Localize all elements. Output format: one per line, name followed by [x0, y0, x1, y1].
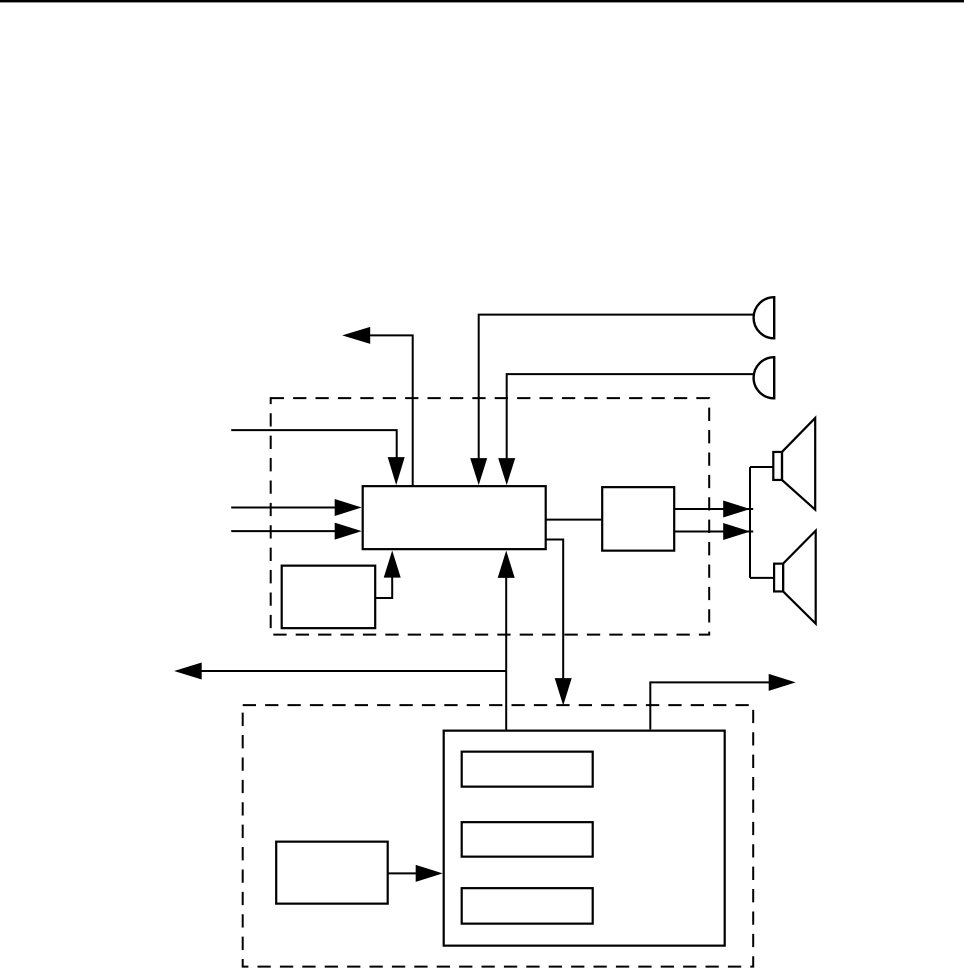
page top rule: [0, 0, 964, 2]
block: oscillator (small box upper-left): [282, 566, 376, 629]
wire: input line 2 into DSP left: [231, 506, 337, 508]
microphone MIC1: [754, 297, 775, 338]
block: interface (small lower-left box): [276, 842, 388, 904]
wire: speaker bracket vertical: [749, 467, 751, 578]
wire: oscillator to DSP: [375, 577, 392, 598]
microphone MIC2: [754, 357, 775, 398]
wire: DSP bypass down to control section: [546, 539, 564, 678]
wire: amplifier output 2 to speakers: [674, 531, 753, 533]
arrow: DSP output to upper-left: [369, 335, 413, 486]
arrow: controller output to right: [650, 682, 769, 729]
block: memory register 3: [462, 888, 593, 924]
arrow: output to far left: [201, 670, 507, 672]
speaker SPK2 cone: [783, 531, 816, 624]
wire: speaker bracket to SPK1: [750, 466, 773, 468]
wire: input line 1 into DSP top: [231, 430, 397, 458]
wire: interface to controller: [388, 872, 417, 874]
wire: amplifier output 1 to speakers: [674, 508, 753, 510]
speaker SPK1 driver: [773, 452, 782, 480]
block: controller (large lower box): [444, 731, 725, 946]
wire: speaker bracket to SPK2: [750, 577, 774, 579]
wire: controller to DSP (vertical riser): [505, 578, 507, 732]
wire: MIC2 to DSP: [507, 374, 754, 459]
dashed enclosure: audio processing section: [271, 398, 710, 635]
speaker SPK1 cone: [782, 418, 815, 510]
block: amplifier: [602, 487, 674, 551]
block: memory register 2: [462, 822, 593, 857]
speaker SPK2 driver: [774, 564, 783, 592]
block: memory register 1: [462, 752, 593, 787]
wire: MIC1 to DSP: [479, 315, 754, 460]
block: DSP (central box): [363, 486, 546, 549]
wire: DSP to amplifier: [546, 519, 603, 521]
wire: input line 3 into DSP left: [231, 530, 337, 532]
dashed enclosure: control section: [243, 705, 754, 967]
